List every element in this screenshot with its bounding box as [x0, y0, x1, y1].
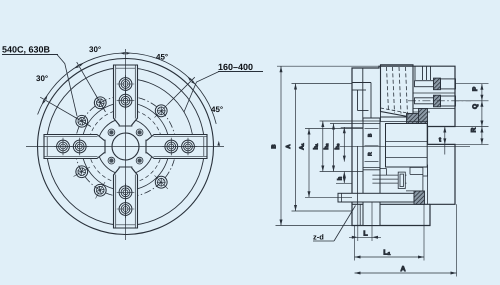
bolt circle dash-dot: [75, 96, 176, 197]
ext line L1 left: [354, 226, 356, 261]
jaw serration dashed line 4: [406, 67, 408, 115]
mounting bolt 1 washer: [441, 79, 456, 89]
svg-text:540C, 630B: 540C, 630B: [2, 45, 51, 55]
body outline: [352, 66, 455, 225]
svg-text:45°: 45°: [211, 105, 223, 114]
dim line h1: [322, 121, 324, 172]
X screw 45deg: [150, 100, 172, 122]
svg-text:45°: 45°: [156, 53, 168, 62]
svg-text:L₁: L₁: [383, 250, 390, 257]
drawbar: [338, 193, 414, 202]
jaw arm top: [114, 65, 138, 126]
bolt 2 axis dash-dot: [408, 100, 471, 102]
leader 540C 630B to 150deg screw: [57, 55, 77, 117]
face circle: [47, 68, 205, 226]
horizontal centerline: [26, 146, 224, 148]
step lines right: [427, 121, 429, 127]
jaw arm bottom: [114, 167, 138, 228]
dim line L1: [355, 256, 425, 258]
ext line y127.3: [341, 126, 363, 128]
z-d leader: [313, 240, 334, 242]
X screw 120deg: [90, 92, 110, 114]
circle r44: [82, 103, 170, 191]
ext line bolt1 axis right: [455, 83, 489, 85]
hatched T-nut blocks: [407, 114, 419, 127]
jaw bottom dashed diagonal: [381, 108, 414, 114]
ext line y123.5: [330, 123, 380, 125]
body bottom line: [352, 203, 430, 205]
jaw arm left: [44, 135, 105, 159]
svg-text:h₁: h₁: [312, 143, 319, 150]
sleeve inner ticks: [365, 128, 379, 130]
internal verticals top: [414, 66, 416, 80]
bottom-half mechanism details: [358, 122, 428, 226]
ext line y121: [320, 120, 380, 122]
sleeve: [363, 118, 380, 226]
ext line L1 right: [423, 204, 425, 260]
arm screws: left arm: [54, 138, 72, 156]
svg-text:30°: 30°: [36, 74, 48, 83]
X screw 150deg: [71, 111, 93, 131]
svg-text:h₃: h₃: [334, 143, 341, 150]
center bore: [112, 133, 139, 160]
ext line y197.3: [305, 196, 352, 198]
ext line y183.3: [336, 182, 352, 184]
vertical centerline: [125, 49, 127, 240]
wedge bolt: [372, 174, 406, 176]
recess arc r68 upper-right: [131, 79, 193, 141]
arm screws: top arm: [117, 75, 135, 93]
svg-text:R: R: [471, 127, 478, 132]
svg-text:A₁: A₁: [300, 143, 306, 150]
radial tick 45deg: [168, 77, 195, 104]
mounting bolt 2 head: [434, 95, 441, 107]
jaw serration dashed line 3: [399, 67, 401, 114]
dim line h3: [343, 127, 345, 161]
svg-text:A: A: [400, 266, 405, 273]
svg-text:Q: Q: [472, 104, 479, 109]
ext line A right: [456, 204, 458, 276]
X screw 315deg: [150, 171, 172, 193]
svg-text:30°: 30°: [89, 45, 101, 54]
jaw arm right: [146, 135, 207, 159]
outer body circle: [38, 59, 214, 235]
svg-text:B: B: [272, 144, 278, 148]
side pin: [410, 166, 423, 168]
svg-text:R: R: [368, 152, 374, 156]
arrows for left stack: [280, 66, 346, 225]
mounting bolt 1 head: [434, 78, 441, 90]
dim line h2: [333, 124, 335, 172]
small corner hole 45deg: [135, 128, 145, 138]
small corner hole 225deg: [107, 156, 117, 166]
face step block lines: [352, 82, 371, 84]
svg-text:h₂: h₂: [323, 143, 330, 150]
dim line h: [343, 172, 345, 184]
svg-text:P: P: [472, 86, 479, 91]
section centerline: [340, 145, 470, 147]
jaw serration dashed line 1: [387, 67, 389, 112]
drawbar bolt head: [414, 191, 425, 204]
jaw block in section: [381, 65, 414, 118]
svg-text:h: h: [336, 176, 343, 180]
X screw 240deg: [90, 179, 110, 201]
leader 160-400: [184, 72, 219, 113]
pocket lines between bolts: [413, 92, 455, 94]
ext line step right: [455, 126, 489, 128]
ext line sleeve tick: [305, 128, 363, 130]
mounting bolt 2 shank: [415, 98, 434, 104]
dim line A: [355, 272, 457, 274]
arm screws: right arm: [179, 138, 197, 156]
angle dimension arc: [38, 53, 217, 124]
ext line y211: [292, 210, 353, 212]
small corner hole 135deg: [107, 128, 117, 138]
jaw serration dashed line 2: [393, 67, 395, 113]
central wedge block: [386, 124, 428, 168]
mounting bolt 1 shank: [415, 81, 434, 87]
ext line top edge: [277, 65, 379, 67]
svg-text:z-d: z-d: [313, 233, 324, 242]
ext line L right: [371, 202, 373, 241]
dim line B: [280, 66, 282, 225]
dim line t: [444, 127, 446, 155]
dim line L: [349, 236, 381, 238]
dim line P Q R: [481, 84, 483, 145]
arm screws: bottom arm: [117, 200, 135, 218]
ext line L left: [357, 204, 359, 241]
arc arrowheads: [41, 52, 220, 146]
hub circle r28: [98, 119, 154, 175]
dim line A1: [308, 129, 310, 198]
upper-half extra internal lines: [380, 121, 428, 123]
small corner hole 315deg: [135, 156, 145, 166]
radial tick 120deg: [77, 62, 106, 112]
svg-text:L: L: [363, 231, 368, 238]
ext line bolt2 axis right: [455, 100, 489, 102]
mounting bolt 2 washer: [441, 96, 456, 106]
ext line flange bottom: [276, 225, 353, 227]
X screw 210deg: [71, 162, 93, 182]
svg-text:t: t: [439, 138, 441, 144]
dashed circle r37: [89, 110, 163, 184]
radial tick 150deg: [40, 97, 91, 126]
ext line y171.5: [320, 171, 363, 173]
ext line bolt axis: [292, 83, 353, 85]
svg-text:160–400: 160–400: [218, 62, 253, 72]
ext line y144.4 right: [455, 143, 489, 145]
dim line A: [295, 84, 297, 212]
